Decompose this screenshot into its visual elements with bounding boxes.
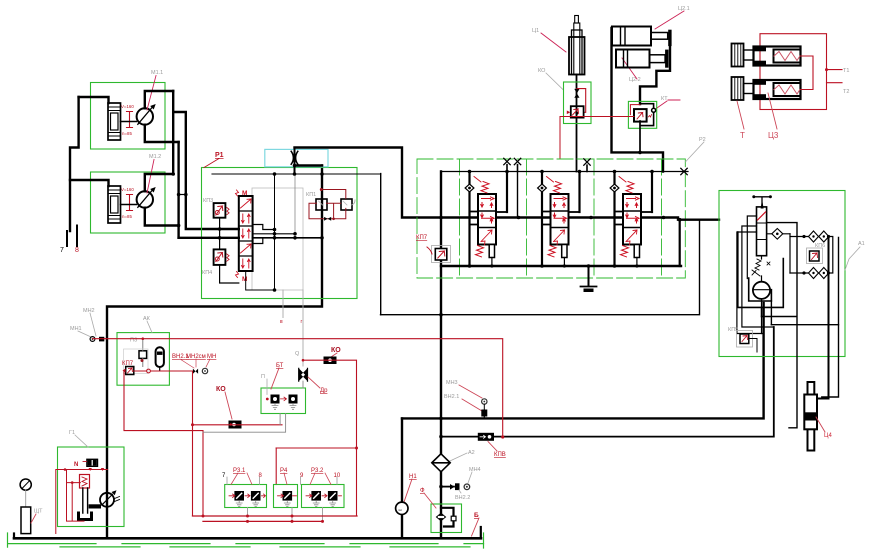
- accumulator vessel: [156, 347, 164, 367]
- pilot ladder: [253, 225, 275, 230]
- section valve 1: [465, 170, 520, 268]
- tank bracket: [480, 527, 482, 538]
- svg-text:Т: Т: [740, 131, 745, 140]
- svg-text:М: М: [242, 276, 247, 283]
- svg-text:Р1: Р1: [215, 152, 224, 159]
- svg-text:КП1: КП1: [306, 192, 316, 198]
- svg-text:в: в: [280, 319, 283, 325]
- wire return line y436.6: [441, 327, 774, 437]
- pilot valve R3.1: [225, 485, 267, 508]
- A/B rail: [441, 218, 719, 220]
- hydromotor M1.2: [137, 191, 153, 207]
- red drop from manifold: [192, 371, 194, 516]
- motor unit M1.1 box: [91, 83, 166, 150]
- svg-text:ЩТ: ЩТ: [34, 509, 43, 515]
- svg-text:А1: А1: [858, 241, 865, 247]
- svg-text:КП3: КП3: [203, 198, 213, 204]
- svg-text:Р2: Р2: [699, 137, 706, 143]
- red drain loop: [56, 470, 108, 534]
- svg-text:V=160: V=160: [121, 104, 134, 109]
- stub 7: [66, 231, 68, 246]
- svg-text:М: М: [242, 190, 247, 197]
- svg-text:КО: КО: [331, 347, 341, 354]
- hand valve: [757, 207, 767, 256]
- node junctions: [439, 216, 443, 439]
- frame corner bottom-left: [13, 534, 15, 539]
- tank stub under block: [588, 266, 590, 286]
- red links: [801, 56, 814, 90]
- shaft wire: [121, 121, 137, 123]
- svg-text:Т2: Т2: [843, 89, 849, 95]
- check valve rows: [767, 233, 790, 235]
- section valve 3: [610, 170, 665, 268]
- shaft wire: [121, 204, 137, 206]
- brake drum T bottom: [732, 77, 744, 100]
- shaft symbol red: [127, 112, 133, 128]
- svg-text:V=160: V=160: [121, 187, 134, 192]
- KP3/KP4 riser: [219, 218, 221, 250]
- svg-text:Р3.1: Р3.1: [233, 468, 246, 474]
- A1 power unit box: [719, 191, 845, 357]
- P rail: [441, 171, 688, 173]
- filter F: [431, 504, 462, 533]
- hand lever: [754, 197, 771, 207]
- internal loops: [742, 226, 774, 327]
- svg-text:КПВ: КПВ: [494, 452, 506, 458]
- red loop from KP7: [124, 371, 203, 516]
- section valve 2: [538, 170, 593, 268]
- relief in G1: [80, 475, 90, 489]
- pump station G1 box: [58, 447, 125, 527]
- svg-text:ВН2.2: ВН2.2: [455, 495, 470, 501]
- svg-text:А2: А2: [468, 450, 475, 456]
- svg-text:Др: Др: [320, 388, 328, 394]
- grey pilot drops: [282, 290, 284, 318]
- brake drum T top: [732, 44, 744, 67]
- wires M1.1: [145, 91, 173, 108]
- KT pilot red: [560, 117, 634, 160]
- svg-text:ω: ω: [399, 507, 402, 512]
- hose highlight box cyan: [265, 149, 328, 166]
- pilot to cylinder line: [767, 223, 797, 428]
- svg-text:Ц3: Ц3: [768, 131, 779, 140]
- brake cylinder body bottom: [754, 80, 801, 99]
- brake cylinder body top: [754, 47, 801, 66]
- gauge MN: [202, 368, 207, 373]
- brake circuit red box: [760, 34, 827, 110]
- down pipe to C4 right: [816, 237, 829, 399]
- svg-text:КО: КО: [538, 68, 546, 74]
- gearbox M1.1: [108, 103, 121, 140]
- svg-text:n=85: n=85: [122, 214, 132, 219]
- C2 piping: [612, 28, 664, 172]
- pump circle: [749, 278, 772, 301]
- valve MN4 VN2.2: [441, 486, 454, 488]
- svg-text:Р3.2: Р3.2: [311, 468, 324, 474]
- svg-text:Н1: Н1: [409, 474, 417, 480]
- wire vertical x441 P feed down to tank: [440, 172, 442, 539]
- svg-text:Ц2.2: Ц2.2: [629, 77, 641, 83]
- plug marks: [504, 158, 510, 164]
- accumulator block AK: [117, 333, 169, 386]
- R2 valve block green box: [417, 159, 685, 278]
- hydromotor M1.1: [137, 108, 153, 124]
- svg-text:М1.1: М1.1: [151, 70, 163, 76]
- tank hatch green dashed: [8, 543, 484, 545]
- svg-text:Q: Q: [295, 351, 300, 357]
- svg-text:Г1: Г1: [69, 430, 75, 436]
- compensator spring and arrow: [755, 259, 761, 270]
- panel ShchT: [21, 507, 31, 534]
- wire block drain y314.7: [381, 220, 700, 315]
- valve VN2.1 bowtie: [193, 369, 198, 374]
- vertical x274.5: [274, 174, 276, 290]
- svg-text:n=85: n=85: [122, 131, 132, 136]
- red rails: [193, 515, 358, 517]
- internal top line: [212, 173, 381, 175]
- red manifold line: [134, 370, 193, 372]
- wire main L drain P1 to tank: [107, 166, 322, 539]
- svg-text:ВН2.1: ВН2.1: [444, 394, 459, 400]
- spool valve R1: [239, 196, 253, 271]
- T rail: [441, 265, 681, 267]
- left bus wires: [70, 97, 79, 231]
- svg-text:Ц4: Ц4: [824, 433, 832, 439]
- svg-text:КП4: КП4: [202, 270, 212, 276]
- svg-text:Т1: Т1: [843, 68, 849, 74]
- shaft symbol red: [127, 195, 133, 211]
- wire vertical x402: [401, 418, 403, 538]
- red junction ring: [147, 369, 151, 373]
- svg-text:МН3: МН3: [446, 380, 458, 386]
- pilot valve block BT: [261, 388, 306, 414]
- motor unit M1.2 box: [91, 172, 166, 233]
- svg-text:М1.2: М1.2: [149, 154, 161, 160]
- C1 line down: [576, 75, 578, 172]
- tank bottom line: [14, 537, 481, 540]
- wire stub x380.5: [380, 174, 382, 315]
- quick coupling Zh: [291, 151, 293, 164]
- svg-text:БТ: БТ: [276, 363, 284, 369]
- wire y237.8 main: [179, 237, 239, 239]
- wire suction line y418: [402, 303, 764, 418]
- red pilot trunk y338.7: [93, 339, 503, 437]
- svg-text:7: 7: [60, 247, 64, 254]
- throttle Dr: [299, 368, 308, 381]
- P1 block box: [202, 168, 358, 299]
- suction strainer: [83, 488, 88, 513]
- svg-text:МН2: МН2: [83, 308, 95, 314]
- svg-text:Ц1: Ц1: [532, 28, 539, 34]
- svg-text:МН: МН: [207, 354, 216, 360]
- wires M1.2: [145, 174, 173, 191]
- svg-text:МН1: МН1: [70, 326, 82, 332]
- cylinder C4: [808, 382, 815, 451]
- svg-text:г: г: [301, 319, 303, 325]
- relief KP7 of AK: [124, 349, 149, 374]
- svg-text:N: N: [74, 462, 78, 468]
- hand pump: [100, 493, 114, 507]
- gearbox M1.2: [108, 186, 121, 223]
- pilot valve R4: [274, 485, 298, 508]
- grey inner frame: [252, 188, 303, 290]
- svg-text:8: 8: [75, 247, 79, 254]
- gauge MN: [20, 479, 31, 490]
- pilot valve R3.2: [302, 485, 345, 508]
- svg-text:Б: Б: [474, 512, 479, 519]
- svg-text:МН4: МН4: [469, 467, 481, 473]
- svg-text:КП7: КП7: [416, 235, 428, 241]
- pump pressure trunk: [294, 148, 296, 175]
- grey drops: [248, 508, 323, 522]
- stub 8: [76, 226, 78, 247]
- svg-text:П: П: [261, 374, 265, 380]
- bus to P1: [172, 91, 174, 174]
- bypass valve KPV: [478, 433, 494, 441]
